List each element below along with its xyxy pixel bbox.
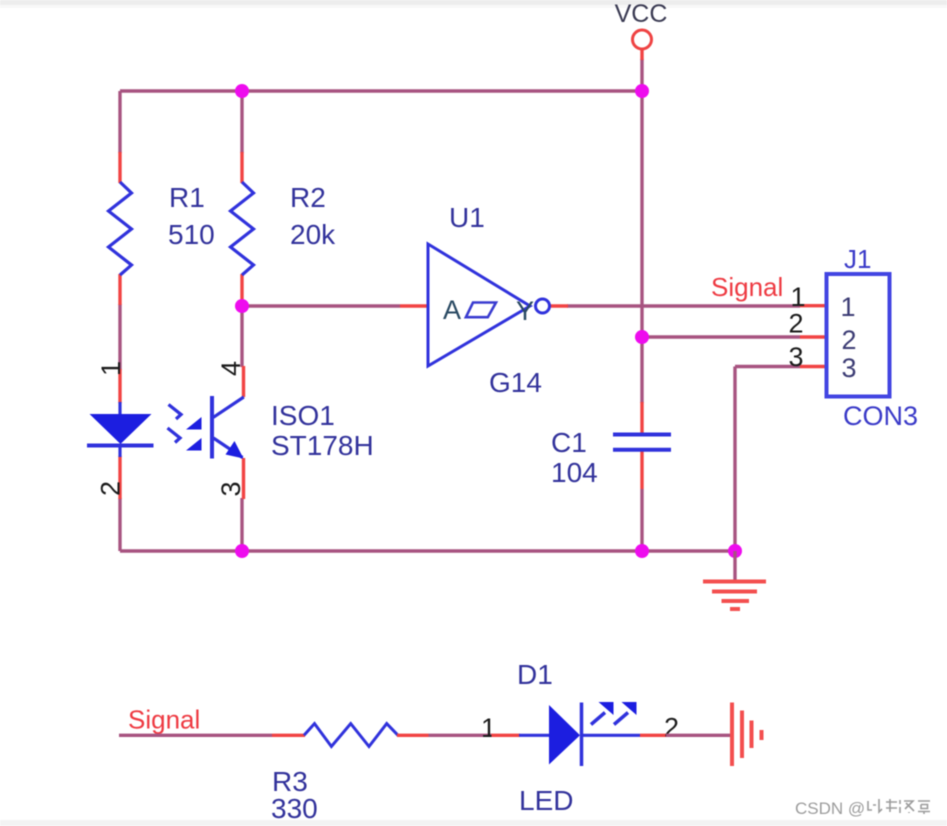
transistor collector line <box>213 397 243 417</box>
svg-text:LED: LED <box>519 785 573 816</box>
resistor R1 <box>109 182 132 275</box>
wire J1 pin3 vertical to ground <box>733 367 736 552</box>
svg-text:20k: 20k <box>290 219 336 250</box>
svg-text:U1: U1 <box>449 202 485 233</box>
pin stub R3 left <box>272 734 305 737</box>
opto LED cathode lead <box>118 446 121 458</box>
svg-text:2: 2 <box>96 481 126 496</box>
node junction top VCC <box>635 84 649 98</box>
wire node to inverter input <box>242 304 400 307</box>
wire R3 to D1 <box>429 734 493 737</box>
svg-text:ISO1: ISO1 <box>271 400 335 431</box>
svg-text:D1: D1 <box>517 659 553 690</box>
svg-text:G14: G14 <box>489 367 542 398</box>
pin stub R2 top <box>240 152 243 183</box>
wire D1 to ground <box>666 734 732 737</box>
pin stub J1 pin1 <box>800 304 827 307</box>
node junction top R2 <box>235 84 249 98</box>
wire R2 branch upper <box>240 91 243 153</box>
node junction R2 bottom <box>235 299 249 313</box>
diode D1 body <box>549 705 580 765</box>
svg-text:2: 2 <box>664 713 679 743</box>
watermark CSDN <box>795 799 930 818</box>
pin stub VCC <box>640 49 643 60</box>
pin stub C1 bottom <box>640 451 643 489</box>
pin stub inverter output <box>550 304 569 307</box>
wire left branch middle <box>118 304 121 370</box>
ground bottom rotated <box>732 703 762 767</box>
light arrow lower <box>168 428 202 451</box>
svg-text:3: 3 <box>841 353 856 383</box>
ground main <box>703 551 766 609</box>
wire bottom rail <box>120 549 735 552</box>
diode D1 cathode lead <box>582 734 641 737</box>
pin stub opto LED anode pin1 <box>118 369 121 403</box>
transistor emitter arrowhead <box>226 441 244 459</box>
pin stub opto collector pin4 <box>242 366 245 397</box>
node junction VCC pin2 <box>635 330 649 344</box>
pin stub C1 top <box>640 402 643 433</box>
pin stub D1 anode <box>492 734 521 737</box>
diode D1 cathode bar <box>580 703 584 767</box>
svg-text:1: 1 <box>481 713 496 743</box>
opto LED anode lead <box>118 402 121 414</box>
wire J1 pin3 horizontal <box>735 365 800 368</box>
wire VCC to J1 pin2 <box>642 335 800 338</box>
resistor R2 <box>231 182 254 275</box>
wire top rail <box>120 89 642 92</box>
pin stub D1 pin2 <box>640 734 667 737</box>
wire C1 to bottom rail <box>640 489 643 551</box>
svg-text:R2: R2 <box>290 182 326 213</box>
diode D1 anode lead blue <box>519 734 550 737</box>
svg-text:1: 1 <box>96 361 126 376</box>
node junction bottom C1 <box>635 544 649 558</box>
svg-text:2: 2 <box>841 325 856 355</box>
svg-text:Signal: Signal <box>128 705 200 735</box>
D1 light arrow right <box>614 702 637 725</box>
svg-text:C1: C1 <box>551 427 587 458</box>
wire VCC vertical <box>640 59 643 403</box>
svg-text:A: A <box>443 295 461 325</box>
D1 light arrow left <box>591 702 614 725</box>
svg-text:3: 3 <box>788 342 803 372</box>
pin stub J1 pin3 <box>800 365 827 368</box>
pin stub opto emitter pin3 <box>242 458 245 499</box>
bottom page edge band <box>0 820 947 826</box>
svg-text:Y: Y <box>516 296 534 326</box>
pin stub J1 pin2 <box>800 335 827 338</box>
op-amp U1 schmitt inverter <box>428 244 550 366</box>
node junction bottom left <box>235 544 249 558</box>
wire R2 branch to opto <box>240 306 243 367</box>
capacitor C1 <box>613 435 671 450</box>
svg-text:Signal: Signal <box>711 272 783 302</box>
resistor R3 <box>304 724 398 747</box>
svg-text:510: 510 <box>168 219 215 250</box>
svg-text:ST178H: ST178H <box>271 430 374 461</box>
svg-text:1: 1 <box>790 282 805 312</box>
svg-text:2: 2 <box>788 309 803 339</box>
svg-text:104: 104 <box>551 457 598 488</box>
wire left branch upper <box>118 91 121 153</box>
pin stub R1 bottom <box>118 274 121 305</box>
transistor emitter line <box>213 438 242 458</box>
svg-text:CON3: CON3 <box>843 401 918 431</box>
svg-text:R1: R1 <box>169 182 205 213</box>
pin stub inverter input <box>400 304 428 307</box>
svg-text:1: 1 <box>840 292 855 322</box>
VCC power port <box>615 0 668 49</box>
wire signal to R3 <box>119 734 272 737</box>
pin stub R1 top <box>118 152 121 183</box>
pin stub R3 right <box>397 734 429 737</box>
light arrow upper <box>169 405 202 430</box>
svg-text:J1: J1 <box>844 244 871 274</box>
node junction bottom ground <box>728 544 742 558</box>
svg-text:3: 3 <box>216 481 246 496</box>
svg-text:CSDN @: CSDN @ <box>795 799 865 818</box>
wire left branch lower <box>118 498 121 551</box>
pin stub opto LED cathode pin2 <box>118 456 121 499</box>
pin stub R2 bottom <box>240 274 243 305</box>
top page edge band <box>0 0 947 5</box>
svg-text:330: 330 <box>271 793 318 824</box>
svg-text:VCC: VCC <box>615 0 668 28</box>
opto LED cathode bar <box>87 444 154 448</box>
svg-text:4: 4 <box>216 361 246 376</box>
wire signal net to J1 pin1 <box>567 304 800 307</box>
transistor ISO1 base bar <box>210 396 214 459</box>
wire opto emitter to bottom rail <box>240 498 243 551</box>
opto LED diode body <box>90 414 152 444</box>
connector J1 <box>827 274 890 397</box>
